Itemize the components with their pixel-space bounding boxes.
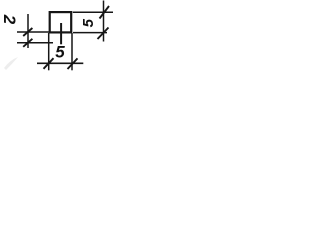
bottom tick right xyxy=(68,58,78,69)
bottom tick left xyxy=(44,58,54,69)
scan smudge xyxy=(4,57,18,70)
bottom extension line right xyxy=(71,33,73,70)
svg-text:2: 2 xyxy=(0,14,19,25)
square outline xyxy=(50,12,71,32)
dimensioned square drawing xyxy=(0,0,118,79)
left tick lower xyxy=(23,39,32,47)
top-right extension line xyxy=(73,11,113,13)
stem xyxy=(60,23,62,44)
right dimension line xyxy=(103,1,105,42)
svg-text:5: 5 xyxy=(80,18,97,27)
bottom extension line left xyxy=(48,33,50,70)
left extension line lower xyxy=(17,42,53,44)
svg-text:5: 5 xyxy=(55,42,65,61)
right tick lower xyxy=(98,28,109,40)
right bottom extension line xyxy=(73,32,107,34)
left tick upper xyxy=(23,28,32,36)
bottom dimension line xyxy=(37,62,83,64)
right tick upper xyxy=(100,6,110,19)
left dimension line xyxy=(27,14,29,48)
left extension line upper xyxy=(17,31,49,33)
